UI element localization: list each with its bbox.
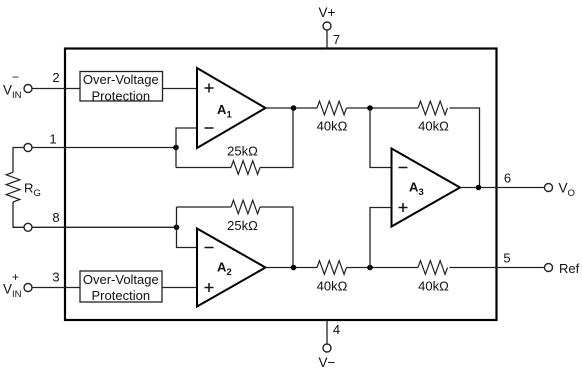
wire A2 inverting input	[177, 207, 198, 248]
IC package outline	[65, 49, 497, 321]
svg-text:A: A	[217, 102, 227, 117]
over-voltage protection block (lower)	[80, 271, 162, 303]
svg-text:IN: IN	[12, 289, 22, 300]
wire A2 output	[266, 267, 318, 269]
svg-text:8: 8	[52, 210, 59, 225]
terminal Ref (pin 5)	[545, 264, 553, 272]
svg-text:V−: V−	[319, 355, 336, 370]
svg-text:V: V	[3, 282, 12, 297]
terminal VO (pin 6)	[545, 184, 553, 192]
svg-text:A: A	[409, 180, 419, 195]
wire 40k to pin 5 (Ref)	[450, 267, 545, 269]
wire pin3 to over-voltage protection	[32, 287, 80, 289]
resistor 40k ohm (A1 to A3 inverting)	[317, 101, 347, 115]
svg-text:O: O	[568, 188, 575, 199]
op-amp A1	[197, 68, 266, 148]
wire RG top	[13, 148, 24, 173]
resistor 40k ohm (A2 to A3 noninverting)	[317, 261, 347, 275]
op-amp A2	[197, 229, 266, 307]
svg-text:Over-Voltage: Over-Voltage	[83, 72, 159, 87]
svg-text:4: 4	[333, 322, 340, 337]
svg-text:V+: V+	[319, 5, 336, 20]
wire V+ to package	[326, 30, 328, 49]
resistor 40k ohm (A3 feedback)	[418, 101, 448, 115]
terminal V- (pin 4)	[323, 344, 331, 352]
svg-text:3: 3	[419, 187, 424, 198]
svg-text:+: +	[12, 270, 19, 284]
svg-text:V: V	[559, 181, 568, 196]
svg-text:Over-Voltage: Over-Voltage	[83, 272, 159, 287]
wire pin8 to A2 inverting node	[32, 226, 177, 228]
svg-text:40kΩ: 40kΩ	[317, 119, 348, 134]
wire A1 feedback bottom	[176, 167, 231, 169]
wire pin1 to A1 inverting node	[32, 147, 176, 149]
terminal pin 1	[24, 144, 32, 152]
terminal pin 8	[24, 223, 32, 231]
wire A1 feedback to output	[260, 108, 293, 168]
terminal VIN+ (pin 3)	[24, 284, 32, 292]
svg-text:Protection: Protection	[92, 288, 151, 303]
junction pin1 / A1 inverting	[173, 145, 179, 151]
wire A2 feedback to output	[260, 207, 293, 268]
wire A1 inverting input	[176, 128, 197, 168]
wire 40k to node X	[347, 107, 419, 109]
wire RG bottom	[13, 202, 24, 227]
svg-text:3: 3	[52, 270, 59, 285]
svg-text:A: A	[217, 260, 227, 275]
junction node Y (A3 noninverting net)	[367, 265, 373, 271]
wire 40k to node Y	[347, 267, 419, 269]
junction A3 output / feedback	[476, 185, 482, 191]
svg-text:2: 2	[227, 267, 232, 278]
resistor RG (external gain)	[6, 172, 20, 202]
svg-text:IN: IN	[12, 90, 22, 101]
svg-text:6: 6	[504, 171, 511, 186]
svg-text:25kΩ: 25kΩ	[227, 218, 258, 233]
resistor 25k ohm (A1 feedback)	[231, 161, 260, 175]
wire node X to A3 inverting input	[370, 108, 392, 168]
over-voltage protection block (upper)	[80, 72, 163, 104]
svg-text:Protection: Protection	[92, 88, 151, 103]
svg-text:1: 1	[227, 110, 233, 121]
wire V- from package	[326, 320, 328, 344]
svg-text:−: −	[12, 70, 19, 84]
junction pin8 / A2 inverting	[174, 225, 180, 231]
svg-text:V: V	[3, 83, 12, 98]
wire A2 feedback top	[177, 206, 232, 208]
svg-text:2: 2	[52, 70, 59, 85]
label VIN+	[3, 270, 22, 300]
svg-text:25kΩ: 25kΩ	[227, 144, 258, 159]
svg-text:G: G	[34, 188, 41, 199]
wire A3 feedback to output	[450, 108, 480, 188]
svg-text:7: 7	[333, 32, 340, 47]
terminal VIN- (pin 2)	[24, 85, 32, 93]
resistor 25k ohm (A2 feedback)	[231, 200, 260, 214]
resistor 40k ohm (node Y to Ref)	[418, 261, 448, 275]
wire A1 output	[266, 107, 318, 109]
op-amp A3	[392, 149, 461, 227]
svg-text:40kΩ: 40kΩ	[418, 279, 449, 294]
junction node X (A3 inverting net)	[367, 105, 373, 111]
svg-text:40kΩ: 40kΩ	[418, 119, 449, 134]
wire node Y to A3 noninverting input	[370, 208, 392, 268]
svg-text:R: R	[24, 181, 33, 196]
junction A2 output / feedback	[291, 265, 297, 271]
wire pin2 to over-voltage protection	[32, 88, 80, 90]
svg-text:5: 5	[503, 251, 510, 266]
wire OVP to A2 noninverting input	[162, 287, 197, 289]
label VIN-	[3, 70, 22, 101]
terminal V+ (pin 7)	[323, 22, 331, 30]
svg-text:1: 1	[49, 132, 56, 147]
label RG	[24, 181, 41, 200]
wire OVP to A1 noninverting input	[163, 88, 198, 90]
svg-text:Ref: Ref	[559, 261, 580, 276]
wire A3 output to pin 6	[460, 187, 545, 189]
svg-text:40kΩ: 40kΩ	[317, 279, 348, 294]
junction A1 output / feedback	[291, 105, 297, 111]
label VO	[559, 181, 575, 200]
